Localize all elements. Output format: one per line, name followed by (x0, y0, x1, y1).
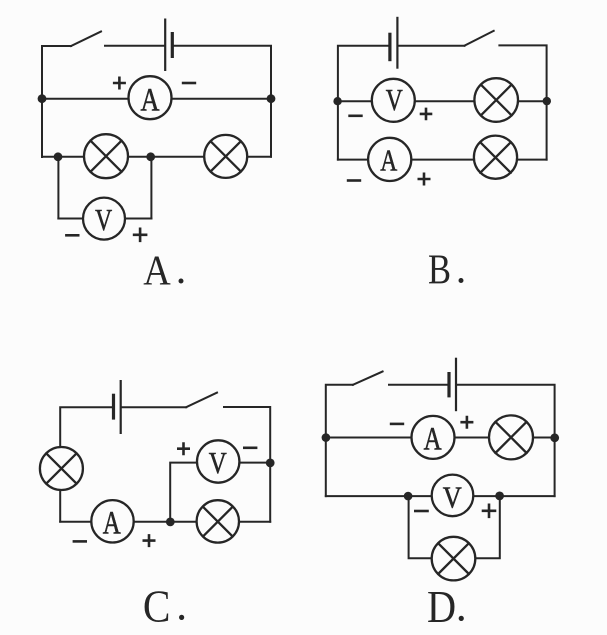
svg-text:A: A (103, 506, 121, 542)
svg-text:A: A (141, 82, 160, 118)
svg-text:B: B (428, 247, 451, 293)
svg-text:A: A (380, 143, 397, 178)
svg-text:V: V (95, 202, 112, 237)
svg-text:.: . (456, 582, 467, 631)
svg-text:.: . (176, 247, 187, 293)
svg-text:A: A (424, 422, 442, 458)
svg-text:.: . (176, 581, 187, 630)
svg-text:V: V (209, 445, 227, 480)
svg-text:C: C (143, 580, 171, 631)
svg-text:D: D (427, 581, 456, 632)
svg-text:A: A (143, 248, 171, 294)
svg-text:.: . (456, 246, 467, 292)
svg-text:V: V (386, 82, 403, 117)
svg-text:V: V (443, 479, 463, 514)
